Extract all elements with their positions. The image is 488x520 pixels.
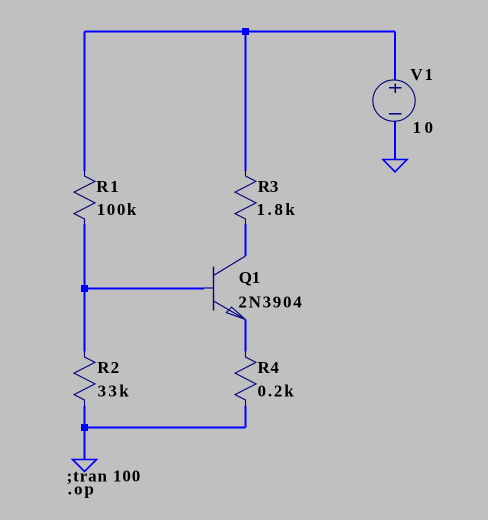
svg-text:R2: R2 <box>97 358 119 377</box>
svg-text:R4: R4 <box>258 358 280 377</box>
svg-text:R3: R3 <box>258 177 279 196</box>
svg-text:100k: 100k <box>97 200 137 219</box>
svg-text:0.2k: 0.2k <box>258 381 295 400</box>
svg-text:33k: 33k <box>98 381 130 400</box>
svg-text:2N3904: 2N3904 <box>238 293 302 312</box>
svg-text:Q1: Q1 <box>239 268 260 287</box>
svg-text:.op: .op <box>68 480 94 499</box>
svg-text:1.8k: 1.8k <box>257 200 296 219</box>
svg-text:V1: V1 <box>410 65 433 84</box>
svg-text:R1: R1 <box>96 177 118 196</box>
